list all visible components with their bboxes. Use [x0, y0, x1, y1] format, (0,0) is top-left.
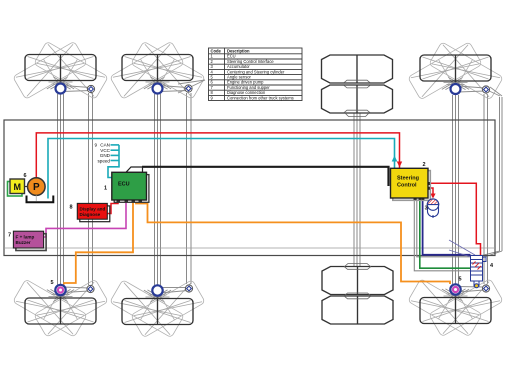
svg-text:Steering: Steering	[397, 176, 419, 182]
svg-text:Display and: Display and	[80, 207, 106, 212]
svg-text:5: 5	[459, 277, 462, 283]
svg-text:7: 7	[8, 233, 11, 239]
svg-text:Description: Description	[227, 48, 250, 53]
svg-text:F + lamp: F + lamp	[16, 235, 35, 240]
svg-text:Code: Code	[211, 48, 222, 53]
svg-text:Diagnose: Diagnose	[80, 212, 101, 217]
svg-text:Buzzer: Buzzer	[16, 240, 31, 245]
svg-text:Control: Control	[397, 183, 417, 189]
svg-text:5: 5	[51, 280, 54, 286]
svg-text:1: 1	[104, 186, 107, 192]
svg-text:6: 6	[24, 173, 27, 179]
svg-text:speed: speed	[97, 158, 110, 163]
svg-text:ECU: ECU	[118, 182, 130, 188]
svg-text:8: 8	[70, 205, 73, 211]
svg-text:CAN: CAN	[100, 143, 110, 148]
svg-text:Connection from other truck sy: Connection from other truck systems	[227, 95, 294, 100]
svg-text:M: M	[13, 182, 21, 192]
svg-text:P: P	[33, 182, 40, 193]
svg-text:3: 3	[425, 206, 428, 212]
svg-text:2: 2	[423, 162, 426, 168]
svg-text:9: 9	[94, 143, 97, 148]
